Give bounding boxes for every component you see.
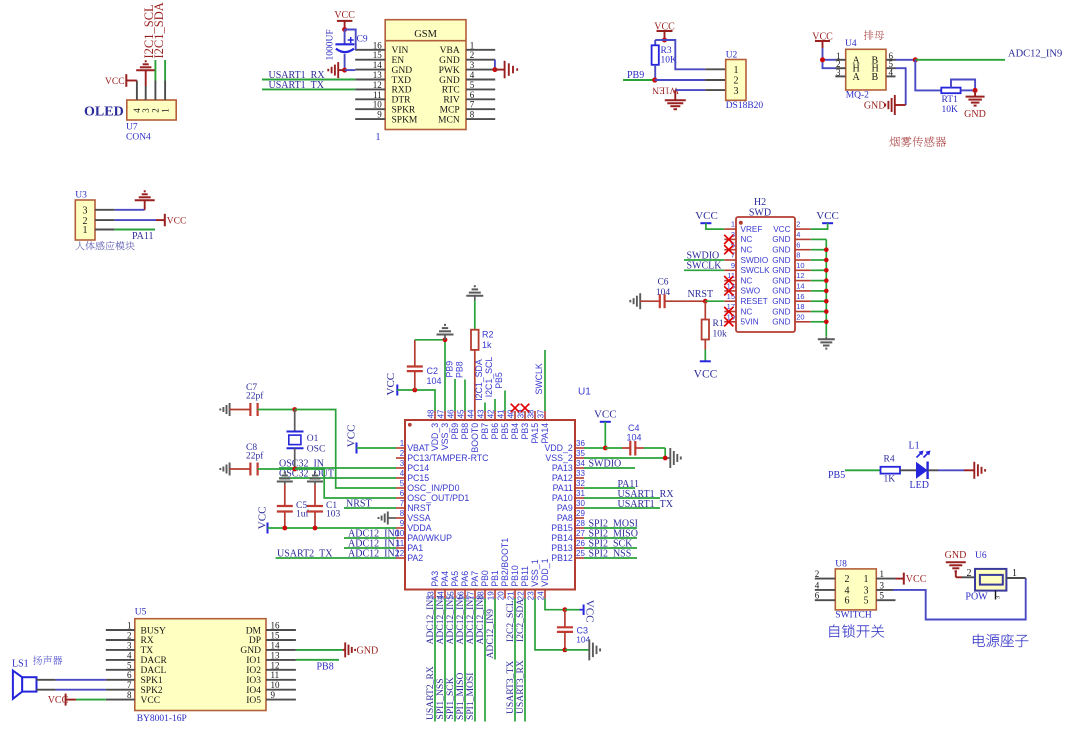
svg-text:SWCLK: SWCLK	[534, 363, 544, 394]
ground above C5	[277, 473, 293, 485]
svg-text:GND: GND	[772, 297, 790, 306]
connector U7 OLED CON4	[127, 100, 176, 120]
net label PA11 at pin32	[618, 479, 640, 490]
svg-text:2: 2	[470, 50, 475, 60]
svg-text:22pf: 22pf	[246, 451, 264, 462]
wire net ADC12_IN9	[915, 59, 1005, 61]
svg-text:VREF: VREF	[741, 225, 763, 234]
svg-text:4: 4	[796, 230, 800, 239]
svg-text:32: 32	[576, 479, 585, 488]
svg-text:I2C1_SCL: I2C1_SCL	[484, 357, 494, 398]
ground at C9	[328, 62, 344, 78]
U8 left pin wires	[815, 579, 836, 601]
connector U2 DS18B20	[726, 60, 746, 101]
ground at RT1	[966, 90, 985, 105]
svg-text:VSS_1: VSS_1	[530, 559, 540, 586]
wire PB9 pin46	[454, 379, 456, 411]
junction C5 VDDA	[282, 526, 287, 531]
svg-text:10: 10	[373, 100, 383, 110]
H2 left pin stubs	[724, 229, 736, 322]
svg-text:PB4: PB4	[510, 423, 520, 440]
resistor R3 10K	[652, 40, 665, 80]
designator U4	[845, 39, 857, 49]
svg-text:1: 1	[470, 40, 475, 50]
value 1uf	[296, 509, 310, 520]
U6 pin1 number	[1012, 568, 1017, 579]
svg-text:NRST: NRST	[688, 289, 714, 300]
svg-text:GND: GND	[772, 276, 790, 285]
junction RT1 right	[973, 88, 978, 93]
ground at U2 pin3	[665, 100, 686, 109]
junction NRST	[703, 299, 708, 304]
svg-text:EN: EN	[392, 56, 405, 66]
no-connect marks U1 PB4 PB3	[511, 404, 530, 413]
ground at GSM pin3	[505, 61, 518, 79]
svg-text:12: 12	[271, 660, 280, 670]
GSM left pin numbers	[373, 40, 383, 119]
net label SPI2_MISO	[589, 529, 638, 540]
svg-text:IO5: IO5	[246, 696, 261, 706]
svg-text:R4: R4	[884, 455, 895, 465]
svg-text:1: 1	[127, 621, 132, 631]
svg-text:PC13/TAMPER-RTC: PC13/TAMPER-RTC	[407, 453, 489, 463]
U1 bottom pin stubs	[435, 590, 545, 599]
svg-text:PB2/BOOT1: PB2/BOOT1	[500, 538, 510, 587]
svg-text:8: 8	[470, 110, 475, 120]
svg-text:U8: U8	[835, 560, 847, 570]
svg-text:C2: C2	[427, 366, 439, 376]
svg-text:1: 1	[160, 108, 170, 113]
svg-text:16: 16	[796, 292, 804, 301]
power VCC below R1	[694, 361, 718, 380]
svg-text:14: 14	[796, 282, 804, 291]
svg-text:VCC: VCC	[816, 210, 839, 222]
capacitor C2 104	[407, 340, 423, 390]
designator R3	[661, 46, 672, 56]
junction VSS_1 C3	[563, 648, 568, 653]
ground at VSS_2	[670, 448, 681, 468]
wire LED to ground	[928, 469, 975, 471]
text OLED	[84, 105, 124, 120]
svg-text:U4: U4	[845, 39, 857, 49]
svg-text:BUSY: BUSY	[141, 626, 166, 636]
svg-text:U7: U7	[126, 123, 138, 133]
net label USART2_TX	[277, 548, 333, 559]
U1 pin1 dot	[408, 423, 412, 427]
ground above R2	[466, 286, 483, 300]
svg-text:VCC: VCC	[385, 373, 397, 396]
svg-text:DACL: DACL	[141, 666, 167, 676]
wire U3 pin2 to VCC	[95, 219, 165, 221]
net label OSC32_IN	[279, 458, 324, 469]
svg-text:SPK2: SPK2	[141, 686, 163, 696]
svg-text:4: 4	[400, 469, 405, 478]
svg-text:VCC: VCC	[167, 216, 187, 226]
svg-text:RT1: RT1	[942, 95, 959, 105]
svg-text:PC15: PC15	[407, 473, 429, 483]
value 103	[326, 510, 341, 520]
junction R3 top	[662, 38, 667, 43]
power VCC left of H2	[695, 210, 718, 223]
svg-text:PB8: PB8	[317, 662, 334, 673]
net label SWCLK	[687, 261, 723, 272]
ground at U5 pin14	[345, 642, 355, 657]
svg-text:PB1: PB1	[490, 570, 500, 587]
junction GSM pin3	[492, 67, 504, 72]
text self-lock switch	[830, 624, 839, 637]
svg-text:GND: GND	[772, 235, 790, 244]
svg-text:16: 16	[271, 621, 281, 631]
text body sensor module	[75, 241, 84, 250]
net label USART1_TX at pin30	[618, 499, 674, 510]
svg-text:GND: GND	[772, 246, 790, 255]
svg-text:MQ-2: MQ-2	[846, 91, 869, 101]
svg-text:GND: GND	[964, 109, 986, 120]
capacitor C4 104	[605, 441, 665, 456]
wire SWDIO pin34	[584, 467, 635, 469]
wire OSC32_IN pin3	[279, 467, 396, 469]
svg-text:NRST: NRST	[407, 503, 432, 513]
power VCC at VDD_1	[565, 600, 596, 623]
svg-text:PA2: PA2	[407, 553, 423, 563]
svg-text:1k: 1k	[482, 340, 492, 350]
svg-text:4: 4	[815, 580, 820, 590]
svg-text:104: 104	[427, 376, 442, 386]
svg-text:2: 2	[967, 568, 972, 579]
svg-text:2: 2	[400, 449, 405, 458]
wire VDD_1 pin24 to VCC	[545, 599, 565, 610]
net labels ADC12_IN3-IN8	[425, 595, 486, 645]
net label SPI2_MOSI	[589, 519, 638, 530]
wire USART1_RX to GSM TXD	[262, 79, 355, 81]
svg-text:6: 6	[470, 90, 475, 100]
svg-text:103: 103	[326, 510, 341, 520]
U1 top pin names	[430, 423, 550, 453]
svg-text:C6: C6	[657, 278, 668, 288]
svg-text:7: 7	[470, 100, 475, 110]
svg-text:NC: NC	[741, 235, 753, 244]
svg-text:PB7: PB7	[480, 423, 490, 440]
svg-text:H2: H2	[754, 197, 766, 208]
U8 inner numbers right	[864, 574, 869, 607]
power VCC at C2	[385, 373, 397, 396]
svg-text:18: 18	[796, 302, 804, 311]
value 104 C4	[627, 433, 642, 443]
wire VCC to H2 pin1	[706, 223, 724, 229]
svg-text:VCC: VCC	[105, 77, 125, 87]
svg-text:VBA: VBA	[440, 46, 460, 56]
svg-text:U5: U5	[135, 608, 147, 618]
svg-text:NC: NC	[741, 276, 753, 285]
svg-text:TXD: TXD	[392, 76, 412, 86]
wire SPI2_MOSI pin28	[584, 527, 637, 529]
ground at VSSA pin8	[379, 512, 397, 525]
wire SWDIO to H2 pin7	[684, 259, 724, 261]
wire VCC to GSM VIN pin16	[345, 30, 356, 50]
wire VSS_1 pin23 to C3	[535, 599, 565, 650]
U2 pin numbers 1 2 3	[734, 65, 739, 97]
svg-text:PB15: PB15	[551, 523, 573, 533]
resistor R2 1k	[471, 301, 479, 412]
svg-text:VCC: VCC	[594, 408, 617, 420]
svg-text:PA15: PA15	[530, 423, 540, 444]
wires U1 bottom pins 13-18	[435, 599, 485, 722]
text 1 below GSM	[376, 132, 381, 143]
svg-text:GND: GND	[357, 645, 379, 656]
svg-text:U1: U1	[578, 387, 591, 398]
svg-text:SPK1: SPK1	[141, 676, 163, 686]
value 1k	[482, 340, 492, 350]
svg-text:8: 8	[796, 251, 800, 260]
wire NRST pin7	[344, 507, 396, 509]
svg-text:VBAT: VBAT	[407, 443, 430, 453]
svg-text:RTC: RTC	[442, 86, 460, 96]
designator O1	[307, 434, 319, 444]
svg-text:PA11: PA11	[132, 231, 154, 242]
capacitor C7	[230, 403, 295, 416]
svg-text:U2: U2	[726, 51, 738, 61]
svg-text:1K: 1K	[884, 475, 896, 485]
junction VSS_3 ground	[443, 337, 448, 342]
wire I2C1_SDA at U7 pin1	[164, 60, 166, 100]
svg-text:SWDIO: SWDIO	[741, 256, 769, 265]
GSM right pin names	[438, 46, 460, 125]
svg-text:SWITCH: SWITCH	[835, 611, 872, 621]
svg-text:I2C1_SDA: I2C1_SDA	[474, 359, 484, 401]
wire VCC to pin36	[584, 422, 605, 448]
H2 right pin stubs	[795, 229, 811, 322]
svg-text:VDD_1: VDD_1	[540, 558, 550, 586]
svg-text:28: 28	[576, 519, 585, 528]
net label SPI2_SCK	[589, 539, 634, 550]
junction VDD_2	[603, 446, 608, 451]
svg-text:1: 1	[376, 132, 381, 143]
power VCC at U7	[105, 74, 126, 87]
U1 bottom pin names	[430, 538, 550, 587]
svg-text:4: 4	[470, 70, 475, 80]
H2 left pin names	[741, 225, 771, 327]
wire ADC12_IN0 pin10	[344, 537, 396, 539]
svg-text:OSC: OSC	[307, 445, 325, 455]
wire I2C1_SDA pin43	[484, 403, 486, 412]
designator C3	[577, 626, 589, 636]
wire H2 GND bus	[811, 239, 827, 336]
designator U5	[135, 608, 147, 618]
value 1K	[884, 475, 896, 485]
svg-text:1: 1	[734, 65, 739, 76]
svg-text:1uf: 1uf	[296, 509, 310, 520]
svg-text:3: 3	[734, 86, 739, 97]
title H2 SWD	[749, 197, 771, 219]
svg-text:BY8001-16P: BY8001-16P	[137, 714, 187, 724]
svg-text:GND: GND	[439, 76, 460, 86]
svg-text:PA0/WKUP: PA0/WKUP	[407, 533, 452, 543]
svg-text:DTR: DTR	[392, 96, 412, 106]
svg-text:3: 3	[470, 60, 475, 70]
svg-text:9: 9	[377, 110, 382, 120]
svg-text:PB9: PB9	[444, 361, 454, 378]
U2 pin stubs	[705, 69, 726, 90]
svg-text:VCC: VCC	[583, 600, 595, 623]
U5 right pin numbers	[271, 621, 281, 701]
svg-text:25: 25	[576, 549, 585, 558]
resistor R4 1K	[881, 467, 901, 474]
designator C5	[296, 501, 307, 511]
svg-text:O1: O1	[307, 434, 319, 444]
svg-text:GND: GND	[772, 318, 790, 327]
svg-text:USART3_RX: USART3_RX	[515, 660, 526, 714]
net label PB9	[627, 70, 644, 81]
svg-text:33: 33	[576, 469, 585, 478]
svg-text:3: 3	[400, 459, 405, 468]
svg-text:R2: R2	[482, 330, 494, 340]
net label I2C2_SCL	[505, 600, 516, 642]
wire PA11 pin32	[584, 487, 635, 489]
designator C6	[657, 278, 668, 288]
svg-text:5: 5	[470, 80, 475, 90]
net label SWCLK top	[534, 363, 544, 394]
U5 right pin wires	[266, 630, 296, 700]
svg-text:3: 3	[995, 596, 1002, 599]
svg-text:8: 8	[400, 509, 405, 518]
svg-text:15: 15	[271, 631, 281, 641]
text GND at U4 pin5	[864, 101, 886, 112]
svg-text:C4: C4	[628, 423, 640, 433]
svg-text:PB11: PB11	[520, 566, 530, 587]
GSM left pin names	[392, 46, 418, 125]
junction C1 VDDA	[313, 526, 318, 531]
wire NRST to H2 RESET pin15	[705, 300, 724, 302]
ground left of C8	[220, 463, 229, 476]
text GND at U6	[945, 550, 967, 561]
junction VCC C9	[342, 27, 347, 32]
net label SPI2_NSS	[589, 549, 632, 560]
net label USART2_RX	[425, 666, 436, 720]
wire C4 to VSS_2 pin35	[584, 448, 670, 458]
svg-text:MCP: MCP	[440, 106, 460, 116]
U6 pin3 stub	[995, 591, 1002, 600]
wire SWCLK to H2 pin9	[684, 269, 724, 271]
wire U8 pin3 to U6 pin1	[876, 578, 1025, 620]
connector U3 box	[75, 200, 95, 240]
value MQ-2	[846, 91, 869, 101]
net label ADC12_IN9 bottom	[485, 609, 496, 659]
designator LS1	[12, 659, 29, 670]
svg-text:GND: GND	[439, 56, 460, 66]
wire speaker to SPK1	[37, 679, 106, 681]
svg-text:DM: DM	[246, 626, 262, 636]
svg-text:PB5: PB5	[494, 372, 504, 389]
net label ADC12_IN1	[348, 538, 400, 549]
net label PB8 at U5	[317, 662, 334, 673]
svg-text:9: 9	[731, 261, 735, 270]
net label ADC12_IN9	[1008, 49, 1062, 60]
ground at C3	[565, 639, 600, 660]
svg-text:SPKR: SPKR	[392, 106, 416, 116]
U4 right pin numbers	[889, 51, 894, 78]
H2 right pin names	[772, 225, 790, 327]
svg-text:R1: R1	[713, 319, 724, 329]
power VCC at C9	[334, 10, 355, 30]
designator RT1	[942, 95, 959, 105]
net label W1EN rotated	[652, 85, 679, 95]
U7 pin numbers 4 3 2 1	[132, 108, 170, 113]
GSM right pin numbers	[470, 40, 475, 119]
svg-text:PB8: PB8	[454, 361, 464, 378]
potentiometer RT1 10K	[941, 80, 975, 94]
svg-text:VSS_3: VSS_3	[440, 423, 450, 450]
net label SWDIO	[687, 250, 720, 261]
wire node to RT1	[915, 60, 941, 91]
svg-text:RESET: RESET	[741, 297, 768, 306]
svg-text:30: 30	[576, 499, 585, 508]
value 10k	[713, 330, 728, 340]
wire VCC to H2 pin2	[811, 223, 828, 229]
value 104 C3	[576, 635, 590, 645]
svg-text:PA10: PA10	[552, 493, 573, 503]
svg-text:2: 2	[845, 574, 850, 585]
net label USART1_RX	[269, 70, 326, 81]
wire U3 pin3 to ground	[95, 200, 145, 210]
svg-text:15: 15	[373, 50, 383, 60]
svg-text:2: 2	[127, 631, 132, 641]
svg-text:2: 2	[815, 569, 820, 579]
svg-text:6: 6	[845, 596, 850, 607]
svg-text:GND: GND	[945, 550, 967, 561]
U8 pin5 stub	[876, 599, 895, 601]
designator C1	[326, 501, 337, 511]
wire U7 pin3 to ground	[145, 70, 147, 100]
svg-text:DS18B20: DS18B20	[726, 101, 764, 111]
value CON4	[126, 133, 151, 143]
power VCC at VDD_2	[594, 408, 617, 422]
U1 right pin numbers	[576, 439, 585, 558]
value 22pf C7	[246, 391, 264, 402]
svg-text:10k: 10k	[713, 330, 728, 340]
svg-text:SWCLK: SWCLK	[741, 266, 771, 275]
U1 left pin names	[407, 443, 489, 563]
value 22pf C8	[246, 451, 264, 462]
svg-text:VDD_3: VDD_3	[430, 423, 440, 451]
net label ADC12_IN2	[348, 548, 400, 559]
svg-text:13: 13	[373, 70, 383, 80]
wire C8 to OSC_OUT pin6	[295, 469, 396, 498]
svg-text:PA11: PA11	[553, 483, 573, 493]
wire OSC32_OUT pin4	[279, 477, 396, 479]
svg-text:35: 35	[576, 449, 585, 458]
net label USART3_RX	[515, 660, 526, 714]
svg-text:MCN: MCN	[438, 115, 460, 125]
svg-text:VSS_2: VSS_2	[545, 453, 572, 463]
svg-text:36: 36	[576, 439, 585, 448]
wire PB5 to R4	[845, 469, 881, 471]
svg-text:U3: U3	[75, 191, 87, 201]
svg-text:5: 5	[864, 596, 869, 607]
wire USART1_TX to GSM RXD	[262, 88, 355, 90]
net label I2C2_SDA	[515, 599, 526, 642]
text GND at RT1	[964, 109, 986, 120]
svg-text:6: 6	[400, 489, 405, 498]
capacitor C5 1uf	[277, 485, 293, 529]
value 104 C2	[427, 376, 442, 386]
svg-text:IO3: IO3	[246, 676, 261, 686]
net label I2C1_SCL	[484, 357, 494, 398]
svg-text:5VIN: 5VIN	[741, 318, 759, 327]
wire PB9 net	[623, 79, 655, 81]
wire I2C1_SCL at U7 pin2	[154, 60, 156, 100]
svg-text:20: 20	[497, 591, 506, 600]
U8 inner numbers left	[845, 574, 850, 607]
